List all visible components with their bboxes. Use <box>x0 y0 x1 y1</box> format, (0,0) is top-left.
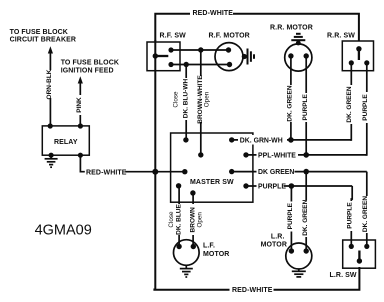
svg-text:PINK: PINK <box>76 97 83 113</box>
label PURPLE (L.R. SW) <box>346 201 356 231</box>
svg-text:RELAY: RELAY <box>54 139 78 146</box>
wire close dk. blue vertical to L.F. motor <box>178 186 180 247</box>
svg-text:ORN-BLK: ORN-BLK <box>46 69 53 99</box>
wire L.R. SW contact bar <box>358 251 360 262</box>
node R.R. SW terminal right <box>364 60 369 65</box>
svg-text:PURPLE: PURPLE <box>287 202 294 229</box>
motor L.R. MOTOR circle <box>286 243 312 269</box>
label RED-WHITE bottom <box>230 285 274 295</box>
label DK. GRN-WH <box>238 135 287 145</box>
wire line2 PPL-WHITE <box>246 154 367 156</box>
wire left border <box>154 40 156 290</box>
node master T4 close dk-blue <box>176 183 181 188</box>
ground below L.F. motor <box>180 265 193 277</box>
svg-text:RED-WHITE: RED-WHITE <box>86 169 127 176</box>
node relay terminal top-left <box>48 123 53 128</box>
svg-text:DK. BLU-WH: DK. BLU-WH <box>182 79 189 119</box>
label BROWN-WHITE Open <box>197 75 211 124</box>
label DK. GREEN (L.R. SW) <box>361 196 371 233</box>
node master T3 red-white feed <box>182 169 187 174</box>
node junction dk-blu-wh on lower wire <box>184 62 189 67</box>
label ORN-BLK <box>45 69 54 99</box>
wire bottom border RED-WHITE <box>154 267 359 290</box>
svg-text:MOTOR: MOTOR <box>261 242 287 249</box>
label PURPLE (L.R. motor) <box>286 202 296 232</box>
svg-text:DK. GREEN: DK. GREEN <box>302 199 309 235</box>
label PINK <box>75 95 84 115</box>
label PURPLE line4 <box>257 181 287 191</box>
svg-text:RED-WHITE: RED-WHITE <box>193 10 234 17</box>
relay box <box>42 126 89 155</box>
svg-text:IGNITION FEED: IGNITION FEED <box>61 67 114 74</box>
label Close DK. BLU-WH <box>172 78 190 120</box>
wire line1 DK. GRN-WH <box>232 139 352 141</box>
ground below relay <box>45 155 58 167</box>
node L.R. SW wiper <box>357 258 362 263</box>
node junction line1 / dk green <box>288 137 294 143</box>
node master T2 brown-white <box>198 152 203 157</box>
node junction left border / red-white <box>152 169 158 175</box>
arrow to fuse block circuit breaker <box>48 46 53 53</box>
svg-text:PURPLE: PURPLE <box>347 202 354 229</box>
text L.R. MOTOR <box>261 233 287 248</box>
node master R4 purple <box>243 183 248 188</box>
node R.F. SW terminal lower <box>168 62 173 67</box>
svg-text:DK GREEN: DK GREEN <box>258 169 294 176</box>
node R.R. motor terminal left <box>288 53 293 58</box>
wire BROWN-WHITE vertical (R.F. open) <box>200 50 202 155</box>
wire ORN-BLK <box>49 53 51 127</box>
motor R.F. MOTOR circle <box>215 43 243 71</box>
node master T1 dk-blu-wh <box>183 137 188 142</box>
switch MASTER SW box <box>171 133 253 202</box>
node L.R. SW terminal right <box>364 244 369 249</box>
label BROWN Open <box>189 204 204 235</box>
wire DK. GREEN line3 down to L.R. motor <box>305 172 307 251</box>
wire R.R. SW DK. GREEN down to line1 end <box>350 63 351 140</box>
node L.F. motor terminal left <box>176 244 181 249</box>
svg-text:PURPLE: PURPLE <box>258 184 286 191</box>
wire PINK <box>79 83 81 127</box>
node R.F. motor terminal upper <box>226 47 231 52</box>
node junction line3 / dk green down <box>303 169 309 175</box>
label Close DK. BLUE <box>167 203 183 235</box>
wire line4 PURPLE <box>246 185 352 187</box>
motor R.R. MOTOR circle <box>285 44 312 71</box>
ground right of R.F. motor <box>242 49 254 65</box>
motor L.F. MOTOR circle <box>174 240 200 266</box>
svg-text:L.R. SW: L.R. SW <box>330 272 357 279</box>
node relay terminal bottom-right <box>78 153 83 158</box>
node master R1 dk-grn-wh <box>229 137 234 142</box>
wire R.F. SW lower to motor <box>171 64 230 66</box>
svg-text:Open: Open <box>204 91 211 107</box>
svg-text:DK. GREEN: DK. GREEN <box>362 196 369 232</box>
node relay terminal bottom-left <box>49 153 54 158</box>
svg-text:DK. GREEN: DK. GREEN <box>287 85 294 121</box>
wire R.R. SW PURPLE down to line2 end <box>366 63 367 155</box>
svg-text:Close: Close <box>168 211 175 228</box>
label DK. GREEN (R.R. SW) <box>345 85 355 124</box>
svg-text:PPL-WHITE: PPL-WHITE <box>258 152 296 159</box>
node L.F. motor terminal right <box>191 244 196 249</box>
svg-text:R.R. MOTOR: R.R. MOTOR <box>270 24 313 31</box>
node junction line4 / purple down <box>289 183 295 189</box>
wire relay to RED-WHITE feed <box>80 155 184 172</box>
svg-text:DK. GREEN: DK. GREEN <box>346 86 353 122</box>
node relay terminal top-right <box>78 123 83 128</box>
svg-text:CIRCUIT BREAKER: CIRCUIT BREAKER <box>10 37 76 44</box>
node master T5 brown open <box>190 190 195 195</box>
svg-text:R.F. SW: R.F. SW <box>160 33 187 40</box>
switch L.R. SW box <box>343 240 376 268</box>
wire brown vertical to L.F. motor <box>192 193 194 247</box>
text L.F. MOTOR <box>203 243 229 259</box>
node junction line2 / purple <box>303 152 309 158</box>
node junction brown-white on upper wire <box>198 47 203 52</box>
arrow to fuse block ignition feed <box>78 76 83 83</box>
node R.R. SW wiper <box>356 46 361 51</box>
ground above R.R. motor <box>291 34 305 46</box>
label PURPLE (R.R. SW) <box>361 92 371 123</box>
svg-text:4GMA09: 4GMA09 <box>35 223 92 239</box>
svg-text:PURPLE: PURPLE <box>362 94 369 121</box>
wire line3 DK GREEN <box>232 171 367 173</box>
node R.F. SW terminal upper <box>168 47 173 52</box>
label RED-WHITE at relay <box>85 167 127 177</box>
svg-text:PURPLE: PURPLE <box>302 93 309 120</box>
ground below L.R. motor <box>292 269 306 277</box>
svg-text:R.F. MOTOR: R.F. MOTOR <box>209 33 250 40</box>
label PURPLE (R.R. motor) <box>301 93 311 122</box>
wire R.F. SW contact bar <box>155 55 168 57</box>
wire R.R. SW contact bar <box>358 49 360 60</box>
label RED-WHITE top <box>190 8 233 18</box>
switch R.F. SW box <box>147 42 180 71</box>
label DK GREEN <box>257 167 295 177</box>
svg-text:TO FUSE BLOCK: TO FUSE BLOCK <box>61 60 119 67</box>
label DK. GREEN (L.R. motor) <box>301 199 311 237</box>
svg-text:L.R.: L.R. <box>271 233 285 240</box>
label DK. GREEN (R.R. motor) <box>286 85 296 122</box>
node master R3 dk-green <box>229 169 234 174</box>
svg-text:L.F.: L.F. <box>203 243 215 250</box>
wire line3 DK GREEN down to L.R. SW <box>366 172 368 247</box>
wire DK. BLU-WH vertical (R.F. close) <box>185 65 187 140</box>
svg-text:Close: Close <box>173 91 180 108</box>
text TO FUSE BLOCK CIRCUIT BREAKER <box>10 29 76 44</box>
svg-text:RED-WHITE: RED-WHITE <box>232 287 273 294</box>
node R.F. SW wiper on border <box>153 53 158 58</box>
node R.R. SW terminal left <box>349 60 354 65</box>
wire R.R. motor DK. GREEN down to line1 <box>290 56 292 140</box>
svg-text:Open: Open <box>196 212 203 228</box>
label PPL-WHITE <box>257 150 299 160</box>
svg-text:TO FUSE BLOCK: TO FUSE BLOCK <box>10 29 68 36</box>
text TO FUSE BLOCK IGNITION FEED <box>61 60 119 75</box>
node L.R. motor terminal right <box>304 248 309 253</box>
svg-text:DK. BLUE: DK. BLUE <box>176 203 183 234</box>
wire line4 PURPLE down to L.R. SW <box>350 186 353 246</box>
wire R.R. motor PURPLE down to line2 <box>305 56 307 155</box>
svg-text:DK. GRN-WH: DK. GRN-WH <box>240 137 283 144</box>
svg-text:MOTOR: MOTOR <box>203 251 229 258</box>
svg-text:R.R. SW: R.R. SW <box>327 32 355 39</box>
switch R.R. SW box <box>342 41 373 71</box>
node R.R. motor terminal right <box>304 53 309 58</box>
node L.R. motor terminal left <box>289 248 294 253</box>
node R.F. motor terminal lower <box>227 62 232 67</box>
wire R.F. SW upper to motor <box>171 49 229 51</box>
svg-text:MASTER SW: MASTER SW <box>190 179 234 186</box>
node master R2 ppl-white <box>243 152 248 157</box>
wire top border RED-WHITE <box>155 14 359 41</box>
node L.R. SW terminal left <box>349 244 354 249</box>
wire PURPLE line4 down to L.R. motor <box>290 186 292 251</box>
